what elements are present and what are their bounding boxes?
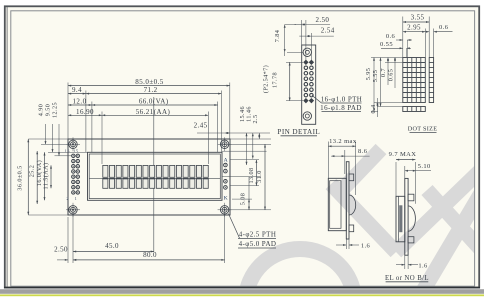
svg-text:0.6: 0.6	[386, 33, 396, 40]
svg-text:EL or NO B/L: EL or NO B/L	[385, 275, 429, 282]
svg-text:7.84: 7.84	[274, 30, 281, 42]
svg-text:12.0: 12.0	[72, 98, 86, 106]
svg-text:2.95: 2.95	[407, 23, 421, 31]
svg-text:(P2.54*7): (P2.54*7)	[262, 65, 269, 93]
svg-text:4-φ5.0 PAD: 4-φ5.0 PAD	[239, 240, 277, 248]
svg-text:2.50: 2.50	[315, 16, 329, 24]
svg-text:2.50: 2.50	[54, 245, 68, 253]
svg-text:5.95: 5.95	[365, 68, 372, 80]
svg-text:5.10: 5.10	[418, 163, 431, 170]
svg-text:3.55: 3.55	[411, 14, 425, 22]
svg-text:16-φ1.8 PAD: 16-φ1.8 PAD	[320, 104, 362, 112]
svg-text:1.6: 1.6	[361, 243, 371, 250]
svg-text:0.65: 0.65	[387, 69, 394, 81]
svg-text:85.0±0.5: 85.0±0.5	[135, 78, 163, 86]
svg-text:16-φ1.0 PTH: 16-φ1.0 PTH	[321, 95, 363, 103]
svg-text:80.0: 80.0	[143, 251, 157, 259]
svg-text:9.50: 9.50	[45, 104, 52, 116]
svg-text:71.2: 71.2	[144, 86, 158, 94]
svg-text:45.0: 45.0	[105, 242, 119, 250]
svg-text:0.4: 0.4	[370, 105, 377, 114]
svg-text:56.21(AA): 56.21(AA)	[136, 108, 171, 116]
svg-text:DOT SIZE: DOT SIZE	[408, 126, 438, 133]
svg-text:12.25: 12.25	[52, 102, 59, 118]
svg-text:1.6: 1.6	[418, 262, 428, 269]
svg-text:0.7: 0.7	[380, 68, 387, 77]
svg-text:66.0(VA): 66.0(VA)	[139, 98, 169, 106]
svg-text:0.55: 0.55	[380, 41, 393, 48]
svg-text:0.6: 0.6	[439, 24, 449, 31]
svg-text:17.78: 17.78	[271, 72, 278, 88]
svg-text:16.90: 16.90	[76, 108, 94, 116]
svg-text:11.5(AA): 11.5(AA)	[43, 163, 50, 190]
svg-text:4-φ2.5 PTH: 4-φ2.5 PTH	[239, 231, 277, 239]
svg-text:2: 2	[66, 196, 69, 201]
svg-text:2.45: 2.45	[194, 121, 208, 129]
svg-text:13.2 max: 13.2 max	[329, 138, 357, 145]
svg-text:PIN DETAIL: PIN DETAIL	[277, 128, 320, 136]
svg-text:15: 15	[73, 148, 78, 153]
svg-text:A: A	[224, 158, 228, 164]
svg-text:9.7 MAX: 9.7 MAX	[389, 151, 417, 158]
svg-text:16: 16	[65, 148, 71, 153]
svg-text:K: K	[224, 195, 228, 201]
svg-text:2.5: 2.5	[252, 115, 259, 124]
svg-text:9.4: 9.4	[72, 86, 82, 94]
svg-text:31.0: 31.0	[256, 170, 263, 182]
svg-text:36.0±0.5: 36.0±0.5	[17, 165, 24, 190]
svg-text:1: 1	[75, 196, 78, 201]
svg-text:8.6: 8.6	[358, 148, 368, 155]
svg-text:4.90: 4.90	[38, 104, 45, 116]
svg-text:25.2: 25.2	[28, 165, 35, 177]
svg-text:2.54: 2.54	[321, 26, 335, 34]
svg-text:5.55: 5.55	[372, 70, 379, 82]
svg-text:5.08: 5.08	[240, 193, 247, 205]
